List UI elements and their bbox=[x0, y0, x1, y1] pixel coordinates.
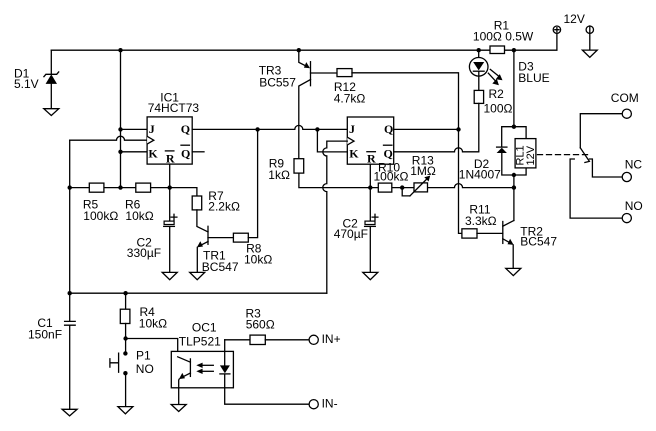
IC1a clock triangle pin bbox=[147, 136, 154, 144]
node junction top rail x120 bbox=[118, 48, 122, 52]
svg-text:Q: Q bbox=[181, 146, 190, 160]
pushbutton P1 lower contact bbox=[123, 371, 127, 375]
node row/NOT-R1/C2 junction bbox=[168, 185, 172, 189]
resistor R2 bbox=[474, 90, 483, 103]
svg-text:10kΩ: 10kΩ bbox=[139, 316, 167, 330]
wire dashed relay actuation link bbox=[538, 154, 590, 156]
node K1 input junction bbox=[118, 150, 122, 154]
node trigger bus / C1 junction bbox=[68, 291, 72, 295]
transistor TR2 emitter with arrow bbox=[503, 239, 514, 269]
wire vertical bus x120 from rail down to R5/R6 row bbox=[120, 50, 122, 187]
capacitor C2 330uF wire from row bbox=[169, 188, 171, 222]
resistor R10 bbox=[378, 183, 392, 192]
node Q1/K2 tie junction bbox=[315, 127, 319, 131]
op-amp IC1b JK flip-flop body bbox=[347, 117, 393, 164]
svg-text:100kΩ: 100kΩ bbox=[83, 209, 118, 223]
LED D3 emission arrow 1 bbox=[490, 69, 502, 80]
node R10/R13 wiper junction bbox=[400, 185, 404, 189]
wire clock2 from trigger bus with hops over K2 and timing row bbox=[323, 141, 348, 293]
resistor R13 wiper arrow bbox=[410, 176, 430, 196]
svg-text:J: J bbox=[149, 122, 155, 136]
svg-text:BC547: BC547 bbox=[520, 234, 557, 248]
OC1 phototransistor collector diagonal bbox=[178, 357, 191, 362]
wire R3 to IN+ terminal bbox=[265, 339, 309, 341]
wire C2 470uF to ground bbox=[369, 227, 371, 272]
svg-text:3.3kΩ: 3.3kΩ bbox=[465, 214, 497, 228]
node Q1/R8 junction bbox=[255, 127, 259, 131]
svg-text:OC1: OC1 bbox=[192, 321, 217, 335]
pin label NOT-Q of IC1b bbox=[384, 145, 393, 160]
OC1 internal LED anode wire bbox=[224, 340, 226, 366]
ground P1 bbox=[118, 407, 133, 414]
wire clock1 from left vertical with hop over x120 bbox=[70, 136, 147, 140]
wire J1 input bbox=[121, 128, 148, 130]
pushbutton P1 top lead bbox=[125, 339, 127, 352]
svg-text:Q: Q bbox=[384, 146, 393, 160]
svg-text:470µF: 470µF bbox=[334, 227, 368, 241]
resistor R6 bbox=[136, 183, 151, 192]
wire C1 to ground bbox=[69, 326, 71, 409]
svg-text:2.2kΩ: 2.2kΩ bbox=[208, 200, 240, 214]
svg-text:100kΩ: 100kΩ bbox=[374, 170, 409, 184]
node timing row NOT-R2/C2 junction bbox=[368, 185, 372, 189]
ground TR2 bbox=[506, 268, 521, 275]
svg-text:IN+: IN+ bbox=[322, 332, 341, 346]
terminal NO circle bbox=[622, 214, 631, 223]
pin label NOT-R of IC1b bbox=[367, 152, 376, 166]
svg-text:BC547: BC547 bbox=[202, 260, 239, 274]
LED D3 emission arrow 2 bbox=[488, 73, 499, 85]
wire NOT-Q1 stub bbox=[192, 151, 204, 153]
svg-text:12V: 12V bbox=[564, 12, 585, 26]
svg-text:5.1V: 5.1V bbox=[14, 77, 39, 91]
transistor TR3 emitter wire from rail with arrow bbox=[299, 50, 310, 68]
wire K2 tie from Q1 node bbox=[317, 129, 347, 152]
wire Q2 output to R12 node bbox=[394, 128, 459, 130]
pin label NOT-Q of IC1a bbox=[181, 145, 190, 160]
OC1 phototransistor emitter with arrow bbox=[179, 373, 191, 405]
OC1 internal LED cathode bar bbox=[220, 373, 230, 375]
node trigger bus / R4 junction bbox=[123, 291, 127, 295]
OC1 internal LED triangle bbox=[220, 365, 230, 373]
wire K1 input bbox=[121, 151, 148, 153]
svg-text:10kΩ: 10kΩ bbox=[244, 253, 272, 267]
capacitor C1 plates bbox=[65, 321, 76, 325]
capacitor C2 470uF plus sign bbox=[372, 214, 378, 220]
wire D3 cathode to R2 bbox=[478, 72, 480, 91]
diode D2 cathode bar bbox=[497, 146, 507, 148]
svg-text:R2: R2 bbox=[489, 87, 505, 101]
terminal IN+ circle bbox=[309, 335, 318, 344]
wire R4 bottom to P1/OC1 node bbox=[125, 324, 127, 339]
ground D1 bbox=[44, 109, 59, 116]
svg-text:R: R bbox=[166, 152, 175, 166]
wire R12 to Q2 node and down to R11 bbox=[352, 73, 462, 234]
LED D3 circle bbox=[469, 58, 488, 77]
wire D2 bottom branch bbox=[502, 153, 526, 175]
svg-text:K: K bbox=[148, 146, 158, 160]
resistor R4 bbox=[120, 309, 130, 323]
svg-text:1kΩ: 1kΩ bbox=[268, 168, 290, 182]
svg-text:R: R bbox=[367, 152, 376, 166]
resistor R5 bbox=[89, 183, 104, 192]
svg-text:10kΩ: 10kΩ bbox=[125, 209, 153, 223]
diode D1 zener wire from rail bbox=[50, 50, 52, 73]
wire NOT-R1 down to row bbox=[169, 164, 171, 188]
svg-text:4.7kΩ: 4.7kΩ bbox=[334, 92, 366, 106]
capacitor C2 330uF plus sign bbox=[171, 214, 177, 220]
svg-text:560Ω: 560Ω bbox=[246, 318, 275, 332]
wire COM terminal to switch pivot bbox=[580, 114, 622, 148]
IC1b clock triangle pin bbox=[347, 137, 354, 145]
svg-text:BLUE: BLUE bbox=[518, 71, 549, 85]
capacitor C2 470uF wire from row bbox=[369, 188, 371, 222]
resistor R13 trimmer body bbox=[414, 183, 428, 192]
LED D3 triangle bbox=[473, 62, 484, 70]
resistor R3 bbox=[250, 335, 265, 344]
resistor R12 bbox=[337, 69, 352, 77]
switch NO fixed contact and wire to NO terminal bbox=[570, 159, 622, 218]
terminal 12V minus bbox=[586, 26, 593, 33]
relay RL1 coil body bbox=[515, 139, 536, 168]
terminal NC circle bbox=[622, 172, 631, 181]
diode D2 anode triangle bbox=[497, 148, 507, 153]
wire R8 up to Q1 bbox=[248, 129, 257, 237]
transistor TR1 emitter with arrow bbox=[197, 241, 208, 272]
node timing row / TR2 collector junction bbox=[512, 185, 516, 189]
pushbutton P1 upper contact bbox=[123, 351, 127, 355]
resistor R9 bbox=[294, 159, 304, 173]
transistor TR2 base bar bbox=[502, 222, 504, 244]
resistor R7 bbox=[192, 196, 202, 210]
svg-text:TLP521: TLP521 bbox=[179, 334, 221, 348]
wire R4 top bbox=[125, 293, 127, 309]
LED D3 cathode bar bbox=[473, 70, 484, 72]
capacitor C2 470uF bottom electrode bbox=[365, 225, 376, 227]
capacitor C2 470uF top electrode box bbox=[365, 221, 375, 224]
node junction top rail TR3 emitter bbox=[297, 48, 301, 52]
node J1 input junction bbox=[118, 127, 122, 131]
wire trigger bus bbox=[70, 292, 327, 294]
wire 12V minus to ground bbox=[589, 33, 591, 50]
svg-text:NO: NO bbox=[136, 362, 154, 376]
resistor R13 wiper wire bbox=[402, 188, 410, 196]
wire Q1 output to FF2 J with hop over TR3 collector line bbox=[192, 125, 347, 129]
svg-text:12V: 12V bbox=[525, 145, 537, 165]
wire left vertical x69 from clock1 corner down to trigger bus bbox=[69, 140, 71, 293]
op-amp OC1 optocoupler body bbox=[171, 351, 233, 387]
terminal 12V plus bbox=[553, 26, 560, 33]
node Q2/R12 junction bbox=[456, 127, 460, 131]
wire R5/R6 row from x69 to R7 corner bbox=[70, 188, 197, 196]
terminal COM circle bbox=[622, 109, 631, 118]
diode D1 zener cathode bar bbox=[44, 72, 59, 77]
resistor R11 bbox=[462, 229, 477, 238]
switch NC fixed contact and wire to NC terminal bbox=[589, 159, 622, 177]
transistor TR3 base bar bbox=[310, 62, 312, 86]
ground C1 bbox=[62, 409, 77, 416]
wire top +V rail from D1 to 12V terminal bbox=[51, 33, 557, 50]
capacitor C2 330uF top electrode box bbox=[164, 221, 174, 224]
LED D3 wire from rail to triangle bbox=[478, 50, 480, 62]
svg-text:150nF: 150nF bbox=[28, 328, 62, 342]
ground C2 470uF bbox=[363, 272, 378, 279]
wire node to OC1 collector bbox=[126, 339, 178, 358]
svg-text:IN-: IN- bbox=[322, 397, 338, 411]
svg-text:330µF: 330µF bbox=[127, 246, 161, 260]
node relay/D2 top junction bbox=[512, 125, 516, 129]
svg-text:1MΩ: 1MΩ bbox=[410, 164, 436, 178]
wire R2 bottom to NOT-Q2 line bbox=[478, 103, 480, 151]
diode D1 zener anode triangle bbox=[46, 74, 57, 84]
ground C2 330uF bbox=[162, 272, 177, 279]
switch blade of relay contact bbox=[580, 148, 589, 163]
svg-text:K: K bbox=[349, 146, 359, 160]
node junction top rail LED/R1 bbox=[477, 48, 481, 52]
node junction top rail R1/relay bbox=[512, 48, 516, 52]
wire relay vertical from rail to D2/relay top node bbox=[513, 50, 515, 127]
capacitor C2 330uF bottom electrode bbox=[164, 225, 175, 227]
wire NOT-Q2 to R2 with hop over R12/R11 vertical bbox=[394, 148, 479, 152]
wire relay bottom node down to TR2 collector corner bbox=[513, 175, 515, 221]
node R4/P1/OC1 junction bbox=[123, 336, 127, 340]
OC1 light arrow 1 bbox=[196, 363, 213, 368]
transistor TR3 collector bbox=[299, 80, 311, 159]
wire R9 bottom corner into timing row bbox=[299, 173, 370, 188]
svg-text:74HCT73: 74HCT73 bbox=[148, 101, 200, 115]
pin label NOT-R of IC1a bbox=[165, 151, 175, 166]
resistor R8 bbox=[233, 233, 248, 242]
pushbutton P1 plunger bbox=[110, 353, 119, 372]
svg-text:BC557: BC557 bbox=[259, 75, 296, 89]
svg-text:Q: Q bbox=[384, 122, 393, 136]
transistor TR2 collector bbox=[503, 221, 514, 227]
svg-text:COM: COM bbox=[611, 91, 639, 105]
wire R7 bottom to TR1 collector bbox=[197, 210, 208, 232]
svg-text:P1: P1 bbox=[136, 348, 151, 362]
wire D1 anode to ground bbox=[50, 84, 52, 109]
wire OC1 LED anode to R3 bbox=[225, 339, 250, 341]
svg-text:1N4007: 1N4007 bbox=[459, 167, 501, 181]
svg-text:J: J bbox=[349, 122, 355, 136]
wire R11 to TR2 base bbox=[477, 232, 503, 234]
node R5/R6 row junction x120 bbox=[118, 185, 122, 189]
svg-text:NO: NO bbox=[625, 199, 643, 213]
wire NOT-R2 down to timing row bbox=[369, 164, 371, 187]
capacitor C1 wire from bus bbox=[69, 293, 71, 320]
wire C2 330uF to ground bbox=[169, 227, 171, 272]
wire OC1 LED cathode to IN- terminal bbox=[225, 375, 310, 405]
OC1 light arrow 2 bbox=[196, 369, 213, 374]
OC1 phototransistor base bar bbox=[189, 359, 191, 377]
wire timing row R10 R13 to relay node with hop over R11 vertical bbox=[370, 184, 514, 188]
wire TR3 base to R12 bbox=[311, 72, 338, 74]
node row/left vertical junction bbox=[68, 185, 72, 189]
ground OC1 emitter bbox=[171, 405, 186, 412]
wire TR1 base to R8 bbox=[208, 237, 233, 239]
wire D2 top branch bbox=[502, 127, 526, 147]
terminal IN- circle bbox=[309, 400, 318, 409]
svg-text:NC: NC bbox=[625, 157, 643, 171]
ground TR1 bbox=[190, 272, 205, 279]
op-amp IC1a JK flip-flop body bbox=[147, 117, 192, 164]
svg-text:100Ω 0.5W: 100Ω 0.5W bbox=[473, 29, 534, 43]
resistor R1 bbox=[490, 46, 505, 54]
svg-text:100Ω: 100Ω bbox=[484, 101, 513, 115]
svg-text:Q: Q bbox=[181, 122, 190, 136]
ground 12V minus bbox=[582, 50, 597, 57]
node relay/D2 bottom junction bbox=[512, 173, 516, 177]
transistor TR1 base bar bbox=[207, 226, 209, 244]
wire P1 to ground bbox=[125, 375, 127, 407]
